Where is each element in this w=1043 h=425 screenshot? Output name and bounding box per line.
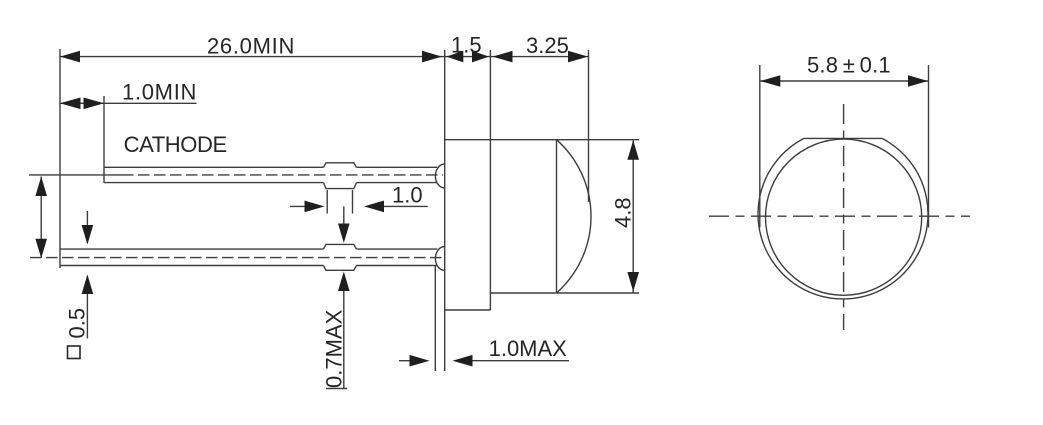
dimension 4.8 line: [632, 140, 634, 292]
dimension 0.7MAX lower leader: [343, 290, 345, 389]
anode lead bottom edge: [60, 265, 324, 267]
arrowhead 0.5 down: [82, 225, 94, 245]
arrowhead 1.0 right inward: [364, 201, 384, 213]
svg-text:1.0MAX: 1.0MAX: [489, 336, 568, 361]
arrowhead 0.5 up: [82, 275, 94, 295]
svg-text:1.5: 1.5: [451, 33, 482, 58]
arrowhead 4.8 bottom: [627, 272, 639, 292]
dimension 1.0 line right: [380, 205, 428, 207]
cathode lead meniscus at flange: [435, 164, 444, 188]
front view outer flange circle with flat: [758, 138, 928, 299]
front view vertical centerline: [843, 104, 845, 330]
arrowhead 5.8 left: [760, 75, 780, 87]
cathode lead stand-off bump: [324, 163, 357, 189]
extension line cathode lead end (1.0MIN): [103, 96, 105, 183]
dome arc: [557, 140, 591, 293]
front view inner body circle: [766, 139, 922, 295]
arrowhead 5.8 right: [908, 75, 928, 87]
extension line meniscus tip (1.0MAX): [434, 266, 436, 371]
anode lead stand-off bump: [324, 244, 357, 270]
arrowhead lead spacing top: [35, 177, 47, 197]
arrowhead 3.25 right: [568, 51, 588, 63]
arrowhead 1.0 left inward: [305, 201, 325, 213]
dimension 1.0MAX line left: [399, 360, 412, 362]
dimension 5.8 line: [760, 80, 928, 82]
svg-text:0.5: 0.5: [65, 308, 90, 339]
dimension 1.0 extension lines (bump): [326, 190, 328, 214]
arrowhead 1.0MAX left inward: [410, 355, 430, 367]
dimension 3.25 line: [491, 56, 588, 58]
flange bottom: [445, 309, 491, 311]
dimension 0.5 upper leader: [86, 211, 88, 243]
LED body top line: [445, 139, 639, 141]
arrowhead 1.0MIN right: [84, 98, 105, 110]
dimension 1.0MIN line: [60, 102, 197, 104]
label 0.5 square symbol: [68, 346, 81, 359]
cathode lead bottom edge: [104, 182, 324, 184]
arrowhead 1.0MAX right inward: [453, 355, 473, 367]
dimension 0.7MAX upper leader: [343, 206, 345, 226]
dimension 26.0MIN line: [60, 56, 444, 58]
arrowhead 1.0MIN left: [60, 98, 81, 110]
arrowhead 26.0MIN right: [422, 51, 442, 63]
dimension lead spacing line: [40, 177, 42, 259]
extension line left (26.0MIN datum): [59, 49, 61, 268]
arrowhead 3.25 left: [493, 51, 513, 63]
dimension 0.5 lower leader: [86, 276, 88, 339]
arrowhead 26.0MIN left: [60, 51, 80, 63]
svg-text:4.8: 4.8: [611, 197, 636, 228]
LED body bottom line: [490, 292, 639, 294]
cathode lead top edge: [104, 166, 324, 168]
anode lead meniscus at flange: [435, 247, 444, 271]
extension line flange left face: [444, 50, 446, 371]
dome chord line: [556, 140, 558, 293]
svg-text:26.0MIN: 26.0MIN: [207, 34, 295, 59]
arrowhead 1.5 left: [446, 51, 463, 63]
svg-text:1.0MIN: 1.0MIN: [122, 80, 197, 105]
dimension 1.0 line left: [290, 205, 308, 207]
dimension 5.8 extension lines: [759, 65, 761, 228]
anode lead top edge: [60, 248, 324, 250]
svg-text:0.7MAX: 0.7MAX: [322, 309, 347, 388]
arrowhead lead spacing bottom: [35, 239, 47, 259]
cathode lead centerline: [29, 174, 134, 176]
dimension 1.0MAX line right: [469, 360, 569, 362]
dimension 0.7MAX end tick: [326, 388, 347, 390]
svg-text:3.25: 3.25: [526, 33, 569, 58]
svg-text:5.8 ± 0.1: 5.8 ± 0.1: [807, 53, 891, 78]
arrowhead 0.7MAX up: [338, 272, 350, 292]
anode lead centerline: [30, 257, 443, 259]
extension line dome apex (3.25): [588, 50, 590, 202]
front view horizontal centerline: [709, 215, 970, 217]
svg-text:CATHODE: CATHODE: [124, 132, 227, 157]
arrowhead 1.5 right: [472, 51, 489, 63]
arrowhead 0.7MAX down: [338, 224, 350, 244]
svg-text:1.0: 1.0: [392, 183, 423, 208]
extension line body left edge / flange right: [489, 50, 491, 310]
dimension 1.5 line: [445, 56, 491, 58]
arrowhead 4.8 top: [627, 140, 639, 160]
